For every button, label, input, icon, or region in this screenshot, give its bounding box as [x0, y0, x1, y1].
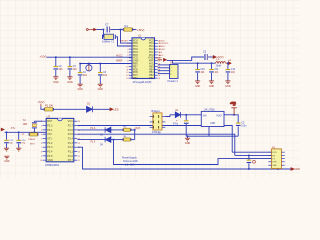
wire to crystal Y1 left — [102, 30, 104, 37]
wire bus to ground symbol — [187, 136, 189, 138]
svg-text:12: 12 — [78, 156, 80, 158]
wire AREF to C5 — [167, 57, 204, 60]
svg-text:PB1: PB1 — [149, 77, 154, 80]
ground bottom-left — [4, 156, 9, 159]
svg-text:10: 10 — [40, 160, 42, 162]
wire C9 to bus — [237, 126, 239, 136]
svg-text:11: 11 — [127, 69, 129, 71]
svg-text:P3.0: P3.0 — [47, 125, 53, 128]
wire rail2 to J3 pin2 — [235, 154, 272, 156]
svg-text:GND: GND — [67, 81, 73, 84]
svg-text:+5(V): +5(V) — [40, 55, 47, 59]
wire U4 GND to bus — [208, 127, 210, 137]
svg-text:+5(V): +5(V) — [38, 100, 45, 104]
resistor R6 — [123, 138, 132, 141]
wire U4 out — [224, 114, 234, 116]
ground C14 — [16, 148, 21, 151]
svg-text:15: 15 — [158, 78, 160, 80]
svg-text:470u: 470u — [173, 124, 179, 126]
svg-text:XT1: XT1 — [47, 138, 52, 141]
svg-text:3: 3 — [127, 46, 128, 48]
svg-text:C12: C12 — [231, 69, 236, 71]
wire U2 P1.7 to J3 long — [77, 126, 232, 153]
svg-text:P1.7: P1.7 — [68, 125, 74, 128]
svg-text:2: 2 — [41, 126, 42, 128]
diode D2 LED — [87, 106, 93, 112]
svg-text:P3.4: P3.4 — [47, 151, 53, 154]
svg-text:12: 12 — [126, 72, 128, 74]
ground C13 — [4, 148, 9, 151]
wire to C11 — [211, 63, 213, 69]
power arrow +5V regulator output — [230, 102, 237, 115]
capacitor C11 — [209, 69, 214, 73]
ground C6 — [98, 84, 103, 87]
svg-text:1.0 · B/W: 1.0 · B/W — [125, 165, 135, 167]
wire U2 to D4 — [77, 139, 105, 141]
junction C13 — [6, 132, 8, 134]
svg-text:DCD: DCD — [272, 152, 277, 154]
svg-text:C10: C10 — [201, 69, 206, 71]
svg-text:P3.5: P3.5 — [47, 155, 53, 158]
diode D4 — [105, 137, 111, 142]
wire U2 P1.5 to J3 long — [77, 134, 234, 155]
wire XTAL rail to U2 — [5, 131, 47, 133]
capacitor C13 — [4, 140, 9, 144]
junction Y2 bottom — [34, 132, 36, 134]
svg-text:Scheme GND: Scheme GND — [123, 160, 138, 163]
wire stub R1 left — [121, 29, 125, 31]
svg-text:P1.4: P1.4 — [68, 138, 74, 141]
port GND bottom right — [291, 168, 300, 172]
svg-text:P1.5: P1.5 — [68, 133, 74, 136]
svg-text:SCK/PC5: SCK/PC5 — [159, 43, 169, 45]
wire C12 to ground — [227, 73, 229, 81]
ground C12 — [225, 81, 230, 84]
wire C13 down — [6, 144, 8, 148]
wire to C3 — [69, 57, 71, 66]
svg-text:XTL: XTL — [11, 128, 16, 130]
port P3.7 — [110, 107, 119, 111]
svg-text:6: 6 — [127, 55, 128, 57]
wire D4 to R6 — [111, 139, 124, 141]
capacitor C14 — [16, 140, 21, 144]
svg-text:9: 9 — [41, 156, 42, 158]
J3 pin names — [272, 152, 277, 167]
svg-text:ADC: ADC — [159, 54, 164, 57]
svg-text:DTR: DTR — [272, 162, 277, 164]
wire out to C9 — [234, 115, 238, 123]
svg-text:P1.2: P1.2 — [68, 146, 74, 149]
svg-text:GND: GND — [4, 160, 10, 163]
wire R6 to +5V node — [131, 139, 135, 141]
svg-text:VCC: VCC — [68, 120, 73, 123]
capacitor C15 — [247, 160, 252, 164]
ground C10 — [195, 81, 200, 84]
svg-text:GND: GND — [77, 88, 83, 91]
svg-text:7: 7 — [41, 147, 42, 149]
svg-text:12MHZ: 12MHZ — [28, 139, 36, 141]
J3 pin stubs — [268, 152, 284, 165]
wire to C8 — [185, 115, 187, 121]
svg-text:4: 4 — [41, 134, 42, 136]
op IC U1 ATmega8 — [132, 38, 155, 79]
junction gnd bus — [187, 135, 189, 137]
svg-text:P1.1: P1.1 — [68, 151, 74, 154]
svg-text:U4 L7805: U4 L7805 — [204, 109, 215, 112]
svg-text:100u: 100u — [241, 125, 247, 127]
svg-text:10: 10 — [126, 66, 128, 68]
junction C8 — [185, 114, 187, 116]
wire to C6 — [99, 64, 101, 73]
junction bus1 — [113, 139, 115, 141]
svg-text:AREF: AREF — [156, 57, 162, 60]
svg-text:AVCC: AVCC — [116, 54, 123, 57]
wire Y1 to XTAL2 pin — [116, 37, 132, 46]
svg-text:GND: GND — [272, 165, 277, 167]
wire bus2 riser to J3 — [272, 165, 278, 169]
svg-text:4: 4 — [127, 49, 128, 51]
wire R4 to +5V node — [131, 129, 135, 131]
capacitor C5 — [204, 54, 208, 60]
svg-text:P3.7: P3.7 — [68, 159, 74, 162]
svg-text:P1.3: P1.3 — [68, 142, 74, 145]
wire port to C7 node — [97, 29, 104, 31]
junction C15 — [248, 155, 250, 157]
wire C4 to ground — [79, 76, 81, 84]
wire ground bus — [186, 135, 238, 137]
wire Y2 top to U2 — [34, 120, 42, 122]
svg-text:GND: GND — [209, 85, 215, 88]
svg-text:GND: GND — [225, 85, 231, 88]
svg-text:11: 11 — [78, 160, 80, 162]
svg-text:GND: GND — [47, 159, 53, 162]
svg-text:1: 1 — [127, 40, 128, 42]
svg-text:12M: 12M — [23, 124, 28, 126]
wire C10 to ground — [197, 73, 199, 81]
svg-text:7: 7 — [127, 58, 128, 60]
svg-text:21: 21 — [158, 61, 160, 63]
connector J2 header — [170, 65, 179, 79]
wire C15 to bus2 — [248, 164, 250, 170]
inductor L2 bead circle — [86, 64, 92, 72]
svg-text:2: 2 — [127, 43, 128, 45]
power label +5V above R2 — [38, 100, 45, 106]
junction C6 — [100, 63, 102, 65]
wire rail1 to J3 pin1 — [232, 151, 271, 153]
junction R4 R6 — [134, 129, 136, 131]
port +3.3V after L1 — [226, 59, 231, 65]
svg-text:14: 14 — [126, 78, 128, 80]
wire C2 to ground — [55, 70, 57, 77]
wire to C15 — [248, 155, 250, 159]
wire C3 to ground — [69, 70, 71, 77]
B1 pin stubs — [150, 117, 166, 128]
svg-text:R1: R1 — [125, 24, 129, 28]
junction C12 — [227, 62, 229, 64]
resistor R4 — [123, 128, 132, 131]
ground C11 — [209, 81, 214, 84]
wire C8 to bus — [185, 124, 187, 136]
capacitor C2 — [54, 66, 59, 70]
wire AREF rail to U1 — [80, 63, 132, 65]
junction C14 — [18, 132, 20, 134]
svg-text:GND: GND — [185, 142, 191, 145]
svg-text:20: 20 — [78, 121, 80, 123]
svg-text:Header 4: Header 4 — [168, 80, 179, 83]
svg-text:U3: U3 — [47, 114, 51, 118]
svg-text:XT2: XT2 — [47, 133, 52, 136]
svg-text:P3.2: P3.2 — [47, 142, 53, 145]
svg-text:P1.6: P1.6 — [68, 129, 74, 132]
capacitor C7 — [107, 27, 111, 33]
svg-text:P3.3: P3.3 — [47, 146, 53, 149]
svg-text:MOSI: MOSI — [159, 49, 165, 51]
regulator U4 L7805 — [201, 111, 224, 126]
junction node XTAL2 — [120, 29, 122, 31]
wire C6 to ground — [99, 76, 101, 84]
capacitor C3 — [68, 66, 73, 70]
svg-text:GND: GND — [53, 81, 59, 84]
wire C7 to R1 node — [110, 29, 120, 31]
wire to C13 — [6, 132, 8, 140]
svg-text:R2 10K: R2 10K — [45, 105, 53, 108]
svg-text:AREF: AREF — [116, 59, 123, 62]
port RST left — [1, 128, 16, 131]
resistor R5 — [29, 133, 39, 136]
svg-text:MISO: MISO — [159, 46, 165, 48]
wire AVCC rail to L1 — [172, 60, 215, 63]
wire D1 to U4 — [181, 114, 202, 116]
capacitor C4 — [78, 72, 83, 76]
crystal Y2 — [32, 121, 37, 132]
wire bus2 U2 to GND port — [77, 147, 291, 169]
wire to C4 — [79, 64, 81, 73]
svg-text:P3.1: P3.1 — [47, 129, 53, 132]
U2 pin stubs — [43, 121, 78, 160]
svg-text:INT0: INT0 — [30, 144, 36, 146]
svg-text:GND: GND — [295, 168, 300, 171]
wire D3 to R4 — [111, 129, 124, 131]
svg-text:13: 13 — [126, 75, 128, 77]
power arrow +5V right — [213, 55, 223, 59]
wire +5V vertical — [134, 130, 136, 140]
junction C11 — [211, 62, 213, 64]
wire U2 to D3 — [77, 129, 105, 131]
svg-text:VOUT: VOUT — [216, 115, 223, 117]
capacitor C12 — [226, 69, 231, 73]
wire to C12 — [227, 63, 229, 69]
resistor R2 — [44, 108, 54, 111]
svg-text:5: 5 — [41, 139, 42, 141]
wire C11 to ground — [211, 73, 213, 81]
capacitor C6 — [98, 72, 103, 76]
svg-text:P1.0: P1.0 — [68, 155, 74, 158]
wire +5V rail to U1 — [47, 56, 133, 58]
svg-text:5: 5 — [127, 52, 128, 54]
svg-text:+5(V): +5(V) — [134, 127, 140, 130]
diode D1 — [175, 112, 180, 118]
junction C10 — [197, 62, 199, 64]
wire +5V to R2 — [41, 106, 45, 109]
junction L2 — [88, 63, 90, 65]
svg-text:ATmega8-16(P): ATmega8-16(P) — [133, 80, 152, 84]
wire B1 to D1 — [165, 115, 175, 117]
svg-text:+5(V): +5(V) — [137, 28, 144, 32]
junction C15 bus2 — [248, 168, 250, 170]
svg-text:16MHz Y1: 16MHz Y1 — [102, 40, 115, 44]
junction bus2 riser — [277, 168, 279, 170]
svg-text:+5(V): +5(V) — [159, 40, 165, 42]
port ISP top-left — [86, 28, 96, 30]
junction C2 — [55, 56, 57, 58]
crystal Y1 — [102, 34, 116, 39]
svg-text:PB0: PB0 — [133, 77, 138, 80]
svg-text:GND: GND — [195, 85, 201, 88]
junction +5V out — [233, 114, 235, 116]
op IC U2 AT89C2051 — [46, 118, 74, 161]
svg-text:+A: +A — [228, 59, 231, 62]
ground C3 — [67, 77, 72, 80]
svg-text:8: 8 — [41, 152, 42, 154]
junction C3 — [69, 56, 71, 58]
svg-text:8: 8 — [127, 61, 128, 63]
svg-text:LED: LED — [114, 107, 119, 111]
ground power supply — [185, 138, 190, 141]
wire to C2 — [55, 57, 57, 66]
svg-text:RST: RST — [47, 120, 52, 123]
junction node XTAL1 — [103, 29, 105, 31]
wires U1 to J2 — [158, 65, 170, 74]
svg-text:6: 6 — [41, 143, 42, 145]
capacitor C10 — [195, 69, 200, 73]
svg-text:AT89C2051: AT89C2051 — [45, 163, 60, 167]
svg-text:P1.4: P1.4 — [91, 141, 96, 143]
svg-text:VIN: VIN — [203, 115, 207, 117]
svg-text:D Bridge: D Bridge — [152, 131, 162, 134]
svg-text:+5(V): +5(V) — [230, 102, 236, 105]
diode D3 — [105, 127, 111, 132]
title text PowerSupply — [122, 157, 138, 167]
J2 pin names — [170, 65, 172, 76]
wire C14 down — [18, 144, 20, 148]
svg-text:16: 16 — [158, 75, 160, 77]
labels U1 right nets — [159, 40, 169, 57]
resistor R1 — [123, 28, 133, 31]
wire D2 to port P3.7 — [93, 108, 110, 110]
plus mark C15 — [253, 160, 256, 163]
svg-text:3: 3 — [41, 130, 42, 132]
svg-text:GND: GND — [210, 123, 215, 125]
svg-text:Bridge1: Bridge1 — [152, 110, 161, 113]
svg-text:U1: U1 — [138, 34, 142, 38]
ground C2 — [53, 77, 58, 80]
capacitor C9 — [236, 123, 241, 127]
wire C5 to +5V arrow — [208, 56, 213, 58]
wire bus1 to J3 — [114, 140, 272, 165]
connector J3 serial — [272, 149, 282, 169]
svg-text:GND: GND — [98, 88, 104, 91]
ground C4 — [78, 84, 83, 87]
capacitor C8 — [184, 120, 189, 123]
wire to C14 — [18, 132, 20, 140]
svg-text:C11: C11 — [214, 69, 219, 71]
B1 pin marks — [153, 115, 159, 128]
wire to C10 — [197, 63, 199, 69]
svg-text:15: 15 — [78, 143, 80, 145]
U1 pin stubs and pin names — [129, 40, 158, 78]
svg-text:13: 13 — [78, 152, 80, 154]
svg-text:RESET: RESET — [120, 40, 128, 42]
wire R2 to D2 — [53, 108, 86, 110]
svg-text:10uH: 10uH — [216, 65, 222, 68]
inductor L1 — [216, 62, 226, 64]
bridge rectifier B1 — [153, 113, 162, 130]
svg-text:P1.6: P1.6 — [91, 128, 96, 130]
svg-text:C7: C7 — [105, 23, 109, 27]
U2 pin names — [40, 120, 80, 162]
junction C4 — [79, 63, 81, 65]
wire R1 to +5V — [132, 29, 137, 31]
port AREF right of U1 — [156, 57, 167, 62]
wire node to XTAL1 pin — [121, 30, 133, 44]
